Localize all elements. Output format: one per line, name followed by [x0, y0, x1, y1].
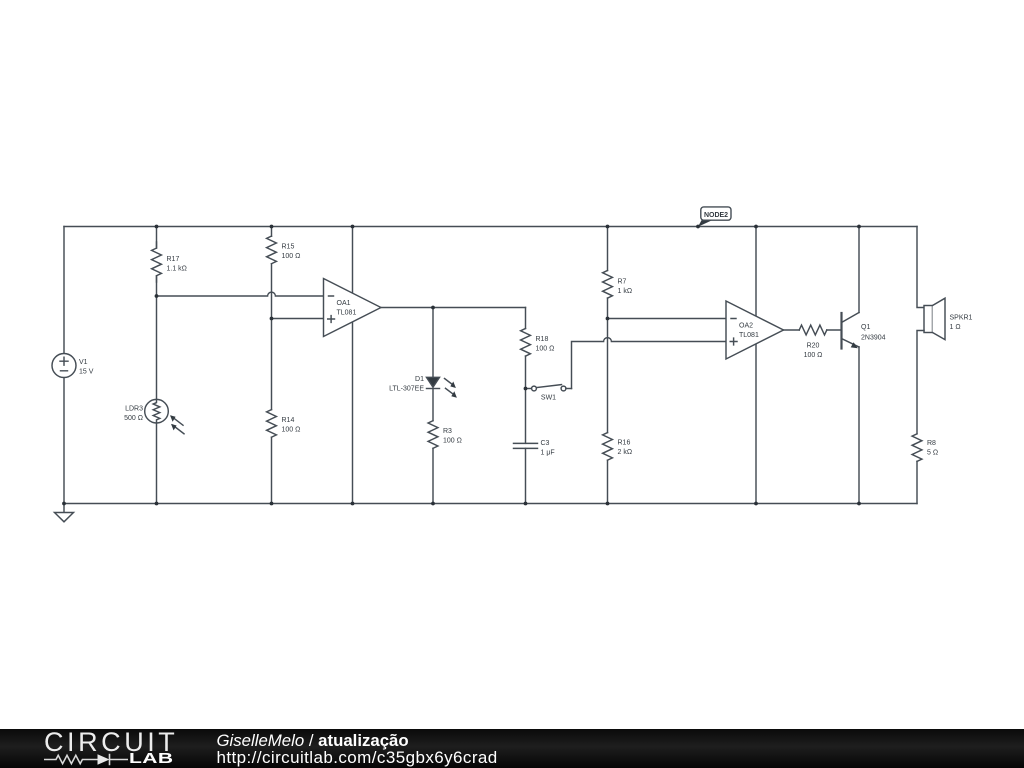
svg-text:TL081: TL081 [337, 310, 357, 317]
wire D1/R3 branch x=433 [432, 308, 434, 504]
svg-text:OA1: OA1 [337, 300, 351, 307]
junction LDR3 branch at bottom rail [155, 502, 159, 506]
wire rail x=156.5 (R17/LDR3 branch) [156, 227, 158, 504]
wire top rail [64, 226, 917, 228]
wire rail x=756 (behind OA2) [755, 227, 757, 504]
junction R15/R14/OA1 non-inverting input [270, 317, 274, 321]
svg-text:R16: R16 [618, 440, 631, 447]
svg-text:NODE2: NODE2 [704, 212, 728, 219]
wire rail x=352.5 (behind OA1) [352, 227, 354, 504]
svg-text:R17: R17 [167, 256, 180, 263]
svg-text:LDR3: LDR3 [125, 406, 143, 413]
junction R17 branch at top rail [155, 225, 159, 229]
wire right rail upper x=917 [917, 227, 924, 308]
wire OA1 non-inverting input from node at (271.5,318.5) [272, 318, 324, 320]
junction OA2 rail at top [754, 225, 758, 229]
svg-text:2N3904: 2N3904 [861, 335, 886, 342]
wire OA2 inverting input from node (607.5,318.5) [608, 318, 727, 320]
resistor R18 [521, 329, 555, 357]
junction mid rail at bottom [351, 502, 355, 506]
ground [55, 504, 74, 522]
svg-text:D1: D1 [415, 376, 424, 383]
capacitor C3 [514, 440, 555, 457]
svg-text:100 Ω: 100 Ω [282, 253, 301, 260]
junction R17/LDR3/OA1 inverting input [155, 294, 159, 298]
resistor R14 [267, 410, 301, 438]
svg-text:OA2: OA2 [739, 323, 753, 330]
junction Q1 emitter at bottom rail [857, 502, 861, 506]
svg-text:100 Ω: 100 Ω [282, 427, 301, 434]
svg-text:R3: R3 [443, 428, 452, 435]
junction ground node at V1 bottom [62, 502, 66, 506]
wire Q1 collector to top rail [858, 227, 860, 313]
resistor R7 [603, 271, 632, 299]
junction OA2 rail at bottom [754, 502, 758, 506]
svg-text:LTL-307EE: LTL-307EE [389, 386, 424, 393]
svg-text:V1: V1 [79, 359, 88, 366]
junction mid rail at top [351, 225, 355, 229]
junction NODE2 tap on top rail [696, 225, 700, 229]
op-amp OA1 [324, 279, 382, 337]
wire OA1 inverting input from node at (156.5,296) [157, 292, 324, 296]
junction R15 branch at top rail [270, 225, 274, 229]
junction Q1 collector at top rail [857, 225, 861, 229]
speaker SPKR1 [924, 298, 973, 339]
svg-text:SW1: SW1 [541, 395, 556, 402]
wire R20 to Q1 base [827, 329, 842, 331]
LED D1 [389, 376, 457, 398]
wire bottom rail [64, 503, 917, 505]
svg-text:2 kΩ: 2 kΩ [618, 449, 633, 456]
svg-text:1 μF: 1 μF [541, 450, 555, 457]
wire right rail lower x=917 [917, 331, 924, 504]
junction R7 branch at top rail [606, 225, 610, 229]
svg-text:1 kΩ: 1 kΩ [618, 288, 633, 295]
junction R3 branch at bottom rail [431, 502, 435, 506]
svg-text:R15: R15 [282, 243, 295, 250]
wire OA2 output to R20 [784, 329, 800, 331]
svg-text:1.1 kΩ: 1.1 kΩ [167, 266, 187, 273]
wire rail x=607.5 (R7/R16 branch) [607, 227, 609, 504]
resistor R15 [267, 236, 301, 264]
wire SW1 up to OA2 non-inverting input [572, 338, 727, 389]
svg-text:15 V: 15 V [79, 369, 94, 376]
svg-text:100 Ω: 100 Ω [536, 346, 555, 353]
svg-text:R18: R18 [536, 336, 549, 343]
CircuitLab logo [44, 727, 178, 758]
junction R14 branch at bottom rail [270, 502, 274, 506]
resistor R20 [799, 325, 827, 359]
junction R18/SW1/C3 [524, 387, 528, 391]
node NODE2 flag [698, 207, 731, 227]
footer text [217, 731, 409, 751]
junction R7/R16/OA2 inverting input [606, 317, 610, 321]
wire rail x=271.5 (R15/R14 branch) [271, 227, 273, 504]
wire R18/SW1/C3 branch x=525.5 [525, 308, 527, 504]
wire left rail [63, 227, 65, 504]
wire OA1 output to R18 branch corner [381, 307, 526, 309]
resistor R3 [428, 421, 462, 449]
svg-text:R7: R7 [618, 278, 627, 285]
svg-text:100 Ω: 100 Ω [443, 438, 462, 445]
voltage source V1 [52, 354, 94, 378]
resistor R8 [912, 434, 938, 462]
svg-text:5 Ω: 5 Ω [927, 450, 938, 457]
svg-text:C3: C3 [541, 440, 550, 447]
photoresistor LDR3 [124, 399, 184, 433]
transistor Q1 [842, 313, 886, 349]
footer bar [0, 729, 1024, 768]
svg-text:SPKR1: SPKR1 [950, 314, 973, 321]
resistor R16 [603, 433, 632, 461]
wire Q1 emitter to bottom rail [858, 347, 860, 504]
svg-text:R8: R8 [927, 440, 936, 447]
svg-text:Q1: Q1 [861, 324, 870, 331]
svg-text:R14: R14 [282, 417, 295, 424]
svg-text:TL081: TL081 [739, 332, 759, 339]
resistor R17 [152, 242, 187, 282]
svg-text:R20: R20 [807, 342, 820, 349]
svg-text:1 Ω: 1 Ω [950, 324, 961, 331]
switch SW1 [526, 384, 572, 402]
svg-text:100 Ω: 100 Ω [804, 352, 823, 359]
junction C3 branch at bottom rail [524, 502, 528, 506]
junction R16 branch at bottom rail [606, 502, 610, 506]
op-amp OA2 [726, 301, 784, 359]
junction OA1 output / D1 branch [431, 306, 435, 310]
svg-text:500 Ω: 500 Ω [124, 415, 143, 422]
